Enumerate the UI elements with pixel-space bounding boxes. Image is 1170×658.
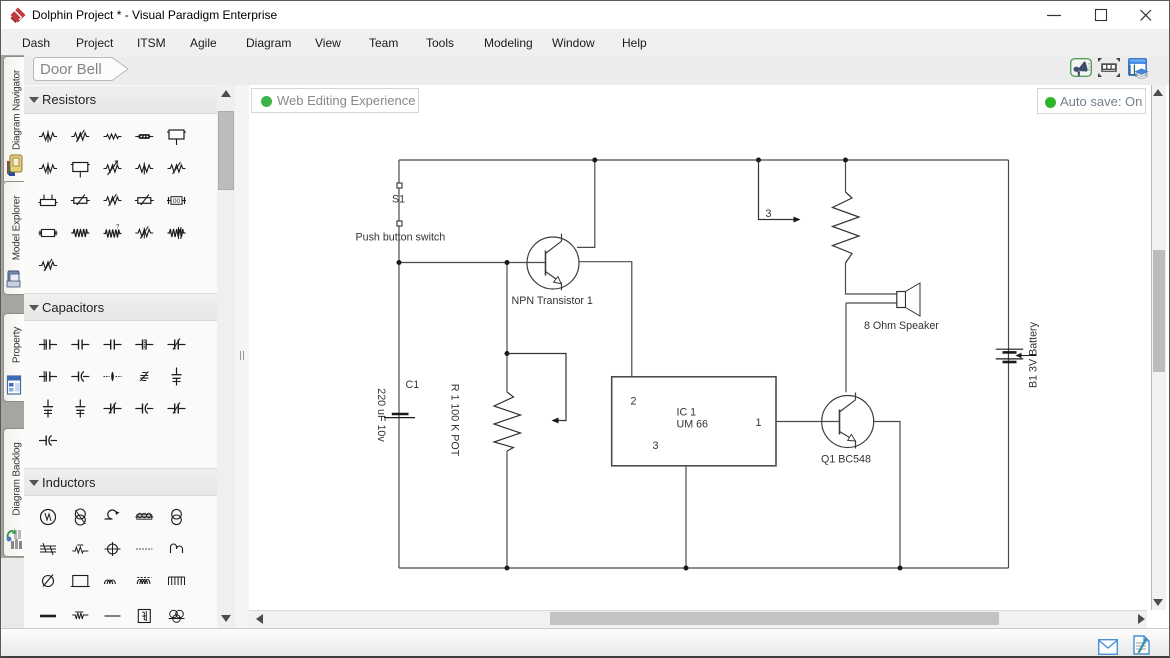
- app logo: [10, 7, 26, 24]
- transistor NPN Transistor 1: [527, 234, 579, 291]
- speaker LS1: [897, 283, 920, 316]
- connector arrow labeled 3: [759, 160, 801, 223]
- badge: Web Editing Experience: [251, 88, 419, 113]
- wire top rail: [399, 159, 1009, 161]
- IC U1 UM66 box: [612, 377, 776, 466]
- wire IC pin 1 to Q1 base: [776, 421, 840, 423]
- wire top rail to resistor R2: [845, 160, 847, 192]
- svg-text:IC 1: IC 1: [677, 407, 697, 419]
- junction node bottom rail / IC pin 3: [684, 566, 689, 571]
- window buttons: [1041, 1, 1161, 29]
- wire NPN transistor 1 to IC pin 2: [579, 262, 632, 377]
- vertical tab: Model Explorer: [3, 181, 24, 295]
- junction node top rail / collector: [592, 158, 597, 163]
- junction node top rail / R2: [843, 158, 848, 163]
- svg-text:S1: S1: [392, 194, 405, 206]
- wire R1 upper lead: [506, 263, 508, 393]
- toolbar icon: filmstrip: [1098, 58, 1120, 77]
- wire speaker lower terminal to Q1 collector: [845, 303, 847, 392]
- capacitor C1: [384, 414, 415, 418]
- svg-text:3: 3: [766, 208, 772, 220]
- Door Bell diagram tab: [32, 57, 130, 81]
- Capacitors grid rows 344.5,376.5,408.5,440.5: [39, 339, 57, 350]
- wire bottom rail: [399, 567, 1009, 569]
- status icon: edit document: [1133, 635, 1151, 655]
- svg-text:NPN Transistor 1: NPN Transistor 1: [512, 295, 593, 307]
- vertical tab: Property: [3, 313, 24, 402]
- junction node R1 wiper: [505, 351, 510, 356]
- svg-text:Push button switch: Push button switch: [356, 232, 446, 244]
- transistor Q1 BC548: [822, 393, 874, 449]
- svg-text:8 Ohm Speaker: 8 Ohm Speaker: [864, 320, 939, 332]
- vertical tab: Diagram Navigator: [3, 56, 24, 184]
- junction node base wire / R1: [505, 260, 510, 265]
- svg-text:C1: C1: [406, 379, 420, 391]
- junction node top rail / connector 3: [756, 158, 761, 163]
- switch S1 push button contacts: [397, 183, 402, 226]
- Inductors grid rows 517,549,581,616: [41, 510, 56, 525]
- toolbar icon: announcement megaphone: [1070, 58, 1092, 77]
- wire collector of NPN transistor 1 to top rail: [577, 160, 595, 247]
- svg-text:3: 3: [653, 440, 659, 452]
- battery B1: [996, 349, 1037, 362]
- status icon: message envelope: [1098, 639, 1118, 655]
- junction node bottom rail / Q1: [898, 566, 903, 571]
- wire speaker lower terminal: [846, 302, 897, 304]
- svg-text:Q1 BC548: Q1 BC548: [821, 454, 871, 466]
- wire right rail: [1008, 160, 1010, 568]
- wire base of NPN transistor 1: [399, 262, 546, 264]
- potentiometer R1 zigzag: [494, 392, 521, 451]
- svg-text:R 1 100 K POT: R 1 100 K POT: [449, 384, 461, 457]
- svg-text:2: 2: [631, 396, 637, 408]
- Resistors grid rows at y 136.5,168.5,200.5,233,265.5 ; cols 48,80.3,112.5,144.3,176.5: [39, 131, 57, 143]
- badge: Auto save On: [1037, 88, 1146, 114]
- wire R2 to speaker upper terminal: [846, 263, 897, 294]
- wire R1 lower lead to bottom rail: [506, 451, 508, 568]
- junction node left rail / base wire: [397, 260, 402, 265]
- vertical tab: Diagram Backlog: [3, 428, 24, 557]
- resistor R2 zigzag: [833, 192, 860, 263]
- wire Q1 emitter side to bottom rail: [874, 422, 900, 569]
- wire left rail: [398, 160, 400, 568]
- svg-text:1: 1: [756, 417, 762, 429]
- R1 wiper wire with arrow: [507, 354, 566, 424]
- wire IC pin 3 to bottom rail: [685, 466, 687, 568]
- svg-text:UM 66: UM 66: [677, 419, 709, 431]
- toolbar icon: layout window with layers: [1128, 58, 1150, 79]
- svg-text:220 uF 10v: 220 uF 10v: [375, 388, 387, 442]
- svg-text:B1 3V Battery: B1 3V Battery: [1028, 321, 1040, 388]
- svg-text:Door Bell: Door Bell: [40, 61, 102, 78]
- junction node bottom rail / R1: [505, 566, 510, 571]
